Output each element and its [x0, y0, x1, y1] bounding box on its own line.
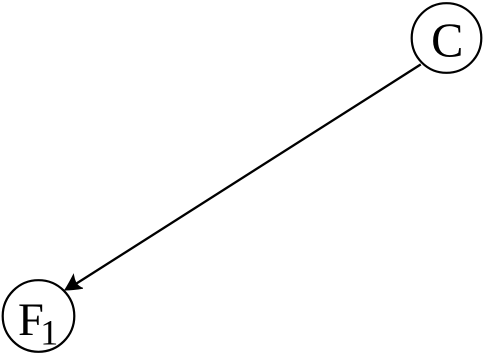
node F1 circle	[3, 280, 75, 352]
svg-text:1: 1	[40, 313, 58, 353]
wire arrow from C to F1	[68, 64, 421, 289]
node C circle	[412, 3, 482, 73]
arrowhead at F1	[65, 275, 83, 290]
svg-text:C: C	[431, 15, 463, 68]
